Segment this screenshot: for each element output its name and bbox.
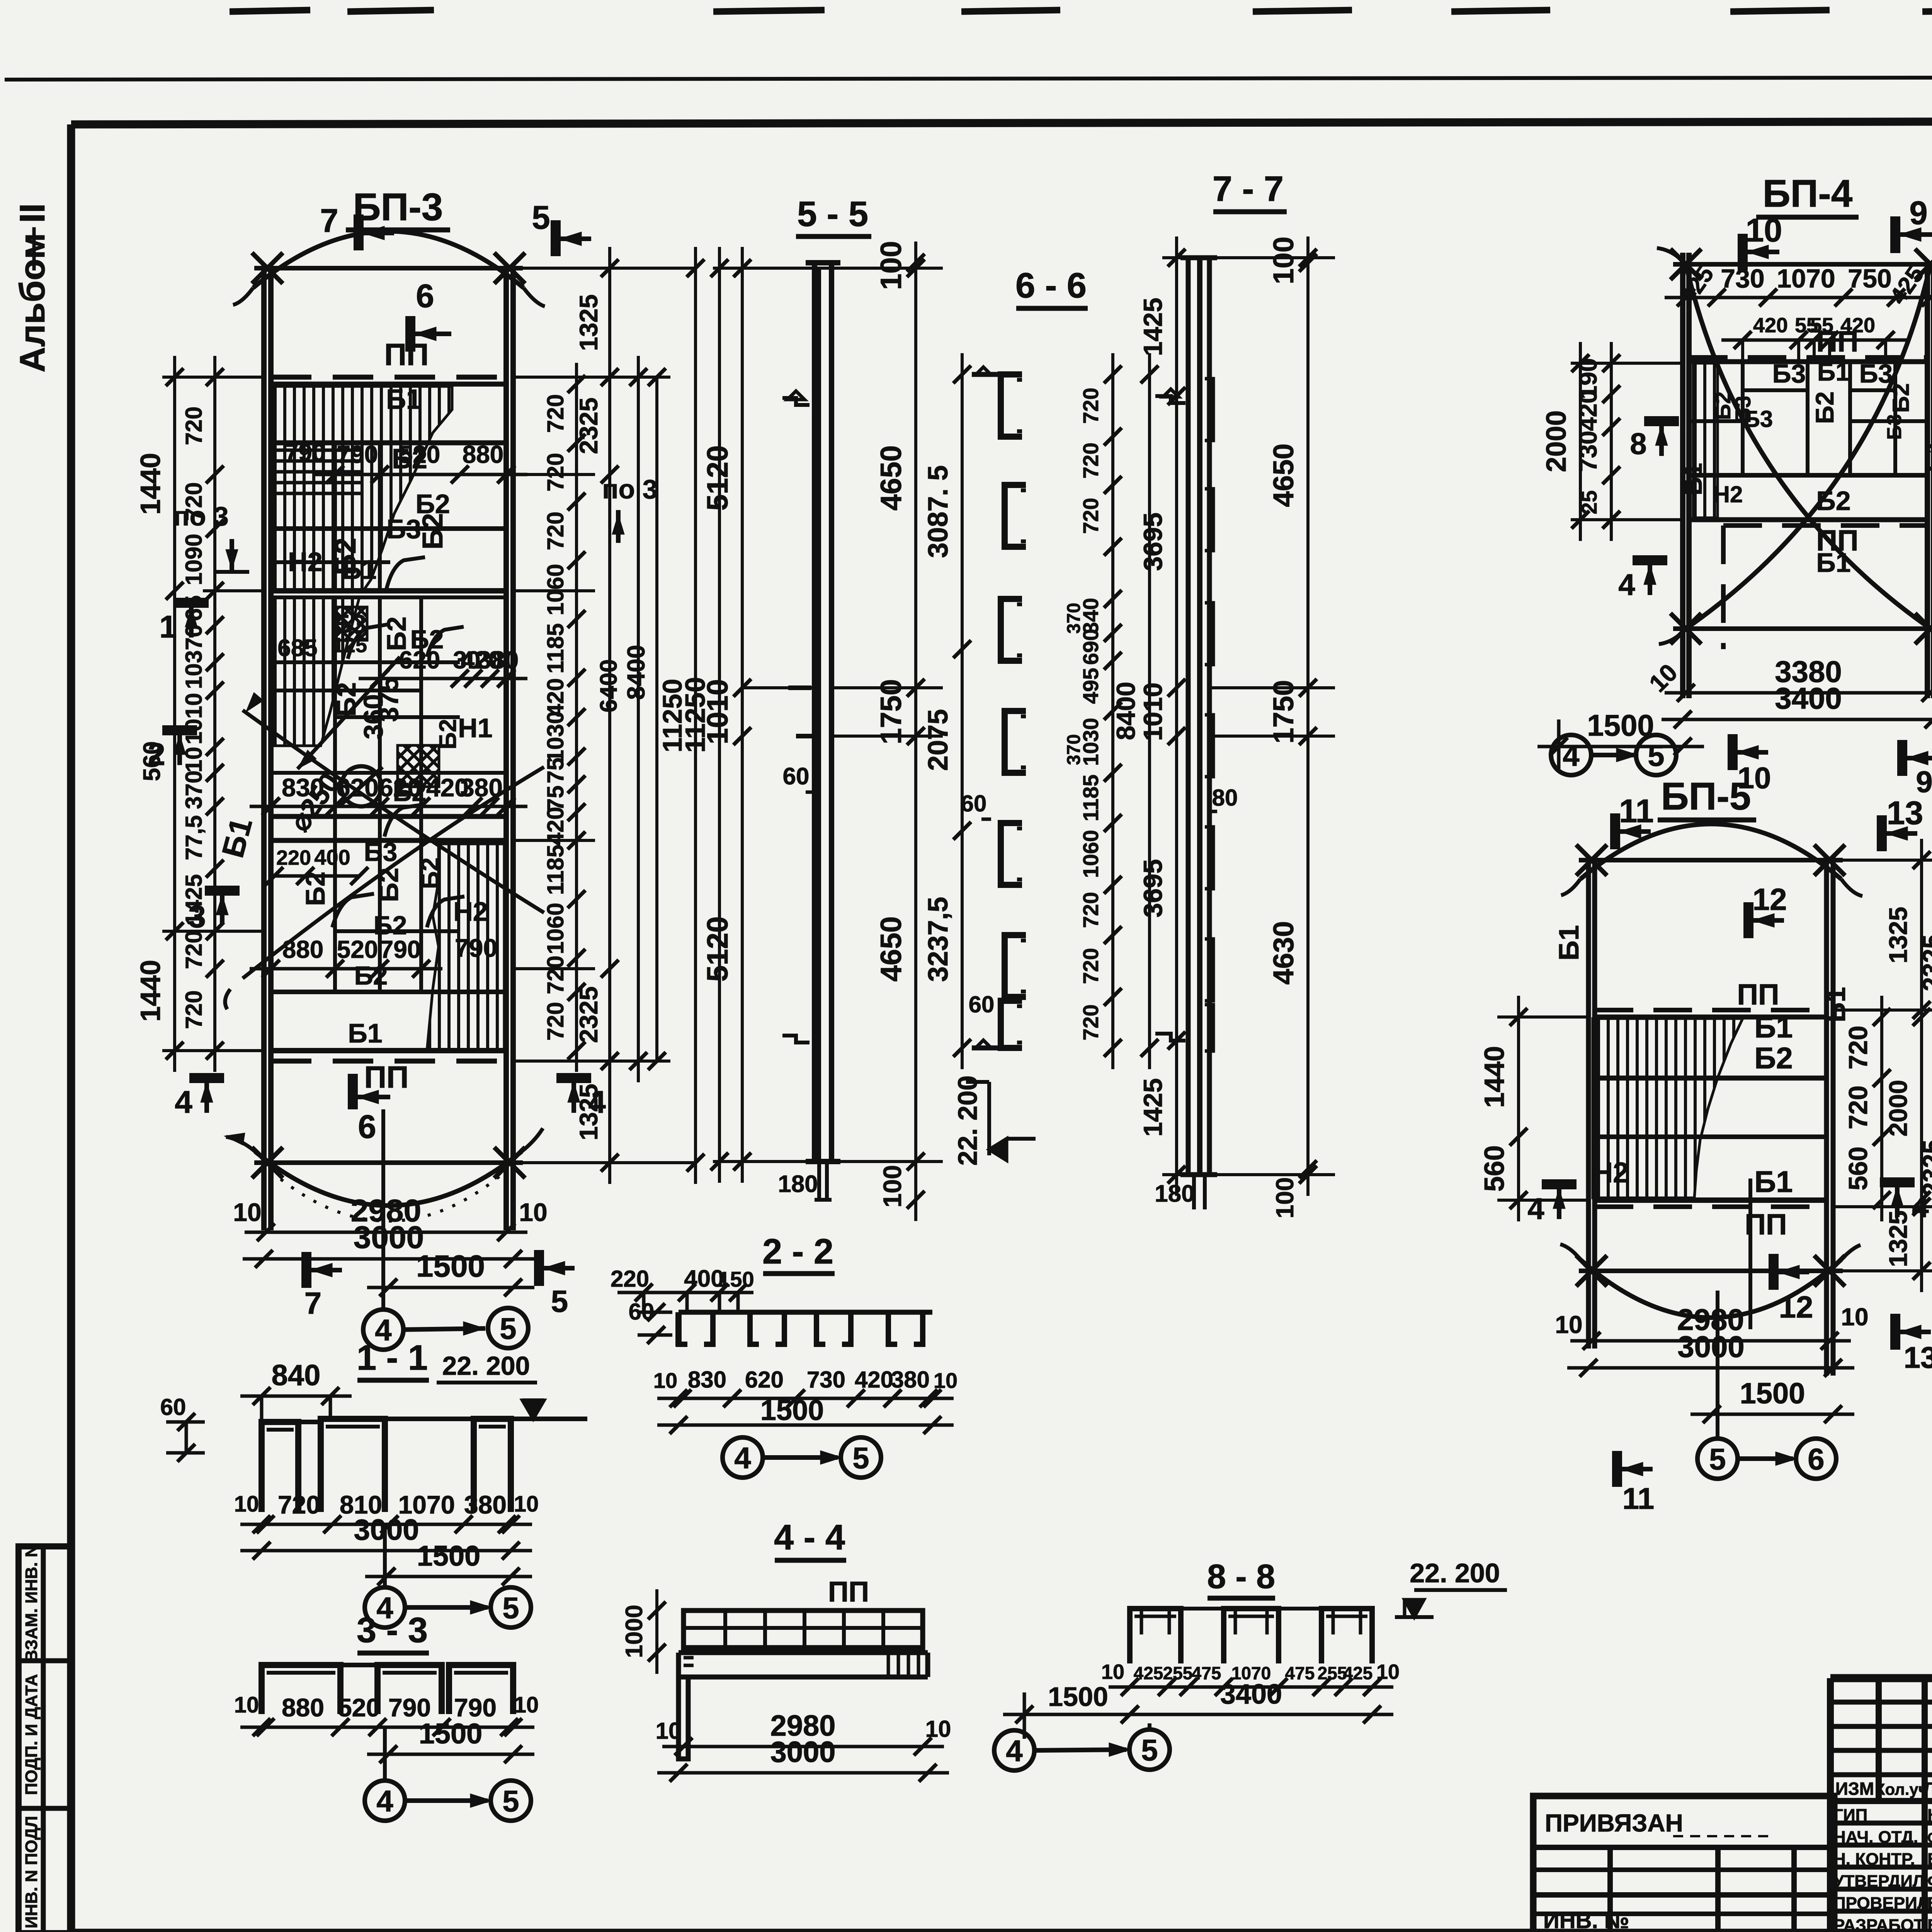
svg-text:125: 125 — [332, 634, 367, 657]
svg-text:3000: 3000 — [354, 1220, 424, 1255]
hatch region H2 bottom-right — [427, 844, 504, 1051]
svg-text:РАЗРАБОТ: РАЗРАБОТ — [1833, 1916, 1924, 1932]
7-7 internal channel marks — [1205, 379, 1213, 440]
section mark 4 left — [1542, 1179, 1577, 1189]
svg-text:1185: 1185 — [543, 623, 568, 673]
svg-text:НАЧ. ОТД.: НАЧ. ОТД. — [1833, 1828, 1918, 1847]
svg-text:БП-4: БП-4 — [1763, 172, 1853, 215]
svg-text:11250: 11250 — [680, 677, 711, 753]
axis circles 4 5 — [1551, 735, 1591, 775]
svg-text:1185: 1185 — [1078, 774, 1103, 821]
svg-text:1440: 1440 — [135, 453, 166, 515]
5-5 column body — [812, 263, 817, 1162]
svg-text:5: 5 — [551, 1284, 568, 1318]
svg-text:Б3: Б3 — [1772, 359, 1806, 388]
left margin stamp boxes — [19, 1546, 71, 1932]
svg-text:7 - 7: 7 - 7 — [1213, 169, 1284, 209]
БП-5 top arc — [1580, 824, 1841, 879]
svg-text:Б2: Б2 — [374, 867, 404, 902]
svg-text:1 - 1: 1 - 1 — [357, 1338, 428, 1378]
svg-text:720: 720 — [1078, 1004, 1103, 1040]
8-8 dim 1500 — [1003, 1713, 1151, 1716]
svg-text:100: 100 — [1267, 236, 1299, 284]
svg-text:370: 370 — [181, 770, 207, 809]
svg-text:2000: 2000 — [1884, 1080, 1912, 1137]
svg-text:4: 4 — [1527, 1192, 1544, 1226]
svg-text:13: 13 — [1904, 1340, 1932, 1374]
svg-text:БАБУРИН: БАБУРИН — [1927, 1850, 1932, 1869]
svg-text:1325: 1325 — [574, 1084, 603, 1141]
svg-text:Н2: Н2 — [1713, 481, 1743, 507]
svg-text:1060: 1060 — [543, 564, 568, 615]
svg-text:4 - 4: 4 - 4 — [774, 1518, 845, 1557]
svg-text:Б2: Б2 — [1888, 383, 1914, 413]
svg-text:495: 495 — [1078, 668, 1103, 704]
svg-text:520: 520 — [338, 1693, 380, 1722]
svg-text:6: 6 — [416, 278, 434, 315]
svg-text:Б2: Б2 — [1810, 391, 1839, 424]
svg-text:830: 830 — [688, 1367, 726, 1393]
svg-text:420: 420 — [855, 1367, 893, 1393]
section mark 7 top — [354, 214, 364, 250]
svg-text:720: 720 — [1844, 1085, 1873, 1129]
svg-text:60: 60 — [969, 992, 995, 1017]
svg-text:3695: 3695 — [1138, 859, 1168, 917]
privyazan box — [1533, 1796, 1834, 1932]
svg-text:720: 720 — [1078, 948, 1103, 984]
svg-text:720: 720 — [1078, 388, 1103, 423]
svg-text:60: 60 — [961, 791, 987, 816]
svg-text:1325: 1325 — [574, 294, 603, 351]
svg-text:10: 10 — [656, 1718, 682, 1744]
svg-text:ФЕДОТОВ: ФЕДОТОВ — [1927, 1872, 1932, 1891]
БП-5 left dim chain — [1517, 996, 1520, 1221]
svg-text:10: 10 — [653, 1368, 677, 1393]
БП-3 middle crossing arcs — [243, 710, 544, 913]
svg-text:80: 80 — [1212, 785, 1238, 811]
section mark 4 left — [1633, 555, 1667, 565]
svg-text:790: 790 — [285, 439, 326, 466]
БП-5 left flange — [1586, 860, 1591, 1349]
svg-text:560: 560 — [1479, 1145, 1510, 1192]
hatch horizontal lines in top block — [275, 449, 363, 452]
ПП dashed top — [1595, 1008, 1827, 1012]
svg-text:400: 400 — [314, 845, 350, 869]
svg-text:ВЗАМ. ИНВ. N: ВЗАМ. ИНВ. N — [22, 1545, 41, 1662]
3-3 dim 1500 — [367, 1753, 534, 1756]
БП-5 right dim chain mid — [1920, 839, 1923, 1292]
svg-text:1010: 1010 — [1138, 682, 1168, 741]
svg-text:560: 560 — [1844, 1146, 1873, 1190]
section mark 4 right — [1880, 1177, 1915, 1187]
svg-text:1425: 1425 — [181, 874, 207, 925]
svg-text:Б2: Б2 — [417, 513, 449, 549]
axis circles 5 6 — [1697, 1439, 1738, 1479]
БП-3 bottom arc — [255, 1151, 522, 1206]
svg-text:4: 4 — [376, 1784, 393, 1818]
БП-4 left flange — [1680, 253, 1685, 698]
svg-text:1500: 1500 — [419, 1718, 483, 1750]
svg-text:790: 790 — [455, 934, 497, 962]
svg-text:2000: 2000 — [1541, 410, 1572, 472]
svg-text:730: 730 — [1574, 431, 1602, 472]
svg-text:620: 620 — [379, 773, 422, 802]
dim row 880 520 790 bottom — [250, 967, 442, 971]
sheet frame bottom border — [71, 1929, 1932, 1932]
svg-text:Н2: Н2 — [288, 547, 322, 577]
svg-text:3695: 3695 — [1138, 512, 1168, 571]
svg-text:2325: 2325 — [1917, 1140, 1932, 1197]
svg-text:ПРОВЕРИЛ: ПРОВЕРИЛ — [1833, 1894, 1929, 1913]
svg-text:КУЗНЕЦОВ: КУЗНЕЦОВ — [1927, 1806, 1932, 1825]
7-7 left dim chain — [1175, 236, 1178, 1196]
svg-text:Б1: Б1 — [1817, 357, 1850, 386]
svg-text:5: 5 — [502, 1591, 519, 1625]
svg-text:100: 100 — [1271, 1177, 1299, 1219]
svg-text:2325: 2325 — [574, 986, 603, 1043]
svg-text:4650: 4650 — [1267, 444, 1299, 507]
svg-text:75: 75 — [543, 758, 568, 784]
svg-text:55: 55 — [1810, 314, 1833, 337]
svg-text:Б3: Б3 — [386, 514, 421, 544]
section mark 3 left — [205, 886, 240, 896]
5-5 outer dim 11250 — [718, 247, 721, 1183]
section mark 5 bottom — [534, 1250, 544, 1286]
svg-text:370: 370 — [181, 624, 207, 663]
svg-text:180: 180 — [778, 1171, 818, 1197]
7-7 top weld mark — [1155, 396, 1185, 403]
БП-3 connector lines to chains — [513, 267, 696, 270]
svg-text:8400: 8400 — [1111, 682, 1141, 740]
svg-text:100: 100 — [878, 1165, 906, 1207]
svg-text:620: 620 — [745, 1367, 784, 1393]
4-4 beam band — [679, 1650, 928, 1655]
ПП dashed top — [1689, 355, 1927, 360]
svg-text:Н1: Н1 — [458, 713, 492, 743]
svg-text:420: 420 — [543, 678, 568, 717]
svg-text:880: 880 — [282, 1693, 324, 1722]
section mark 10 top — [1738, 234, 1748, 270]
svg-text:БАБУРИН: БАБУРИН — [1927, 1894, 1932, 1913]
svg-text:3400: 3400 — [1775, 681, 1842, 715]
bent bar glyphs — [386, 557, 425, 589]
БП-4 top chord — [1673, 262, 1932, 267]
БП-5 horizontals — [1595, 1015, 1827, 1020]
1-1 dim 840 — [240, 1395, 352, 1398]
svg-text:77,5: 77,5 — [181, 815, 207, 861]
revision table horizontals — [1830, 1700, 1932, 1705]
svg-text:3000: 3000 — [1677, 1330, 1745, 1364]
7-7 column body — [1186, 258, 1191, 1175]
svg-text:475: 475 — [1285, 1663, 1315, 1683]
svg-text:9: 9 — [1916, 765, 1932, 799]
8-8 channels — [1130, 1609, 1181, 1663]
top trim line — [5, 77, 1932, 80]
svg-text:Б2: Б2 — [1754, 1041, 1793, 1075]
svg-text:Лист: Лист — [1923, 1779, 1932, 1799]
БП-3 right flange — [503, 268, 509, 1230]
svg-text:840: 840 — [272, 1359, 321, 1392]
svg-text:10: 10 — [234, 1492, 259, 1517]
leader line to hatch — [298, 657, 400, 769]
section mark 1 left — [174, 598, 209, 608]
svg-text:1440: 1440 — [1479, 1046, 1510, 1108]
hatch region top-left lower part — [274, 597, 359, 746]
svg-text:65: 65 — [181, 595, 207, 621]
svg-text:2 - 2: 2 - 2 — [762, 1232, 833, 1271]
ПП dashed bottom — [1595, 1204, 1827, 1209]
dim row 830-380 lower — [250, 805, 527, 808]
section mark 8 left — [1644, 416, 1679, 426]
svg-text:6400: 6400 — [595, 659, 622, 713]
svg-text:6: 6 — [358, 1109, 376, 1145]
svg-text:370: 370 — [1064, 603, 1084, 634]
БП-4 internal boxes — [1741, 362, 1745, 475]
svg-text:10: 10 — [1746, 212, 1782, 249]
film edge dashes top — [230, 10, 310, 12]
svg-text:100: 100 — [875, 241, 908, 290]
svg-text:1325: 1325 — [1884, 1211, 1912, 1267]
title block outline — [1830, 1674, 1932, 1682]
1-1 axis circles — [365, 1587, 405, 1628]
svg-text:Б3: Б3 — [1743, 406, 1773, 432]
svg-text:БИТКОВА: БИТКОВА — [1927, 1916, 1932, 1932]
section mark 4 left bottom — [189, 1073, 224, 1083]
svg-text:2325: 2325 — [1917, 935, 1932, 992]
svg-text:370: 370 — [1064, 734, 1084, 765]
svg-text:ПП: ПП — [1737, 978, 1779, 1011]
svg-text:СЕВОСТЬЯНОВ: СЕВОСТЬЯНОВ — [1927, 1830, 1932, 1846]
svg-text:10: 10 — [514, 1692, 539, 1718]
svg-text:560: 560 — [139, 741, 165, 781]
svg-text:9: 9 — [1909, 195, 1927, 231]
svg-text:Б1: Б1 — [1679, 463, 1707, 495]
БП-3 horizontal members — [271, 382, 506, 387]
ПП dashed line bottom — [271, 1059, 506, 1064]
БП-5 connector lines — [1833, 859, 1932, 862]
3-3 axis circles — [365, 1781, 405, 1821]
5-5 weld marks bottom — [782, 1036, 810, 1043]
svg-text:10: 10 — [1841, 1303, 1868, 1331]
svg-text:8: 8 — [1630, 427, 1646, 461]
8-8 axis circles — [994, 1730, 1034, 1770]
svg-text:720: 720 — [278, 1490, 320, 1519]
svg-text:3000: 3000 — [770, 1736, 835, 1769]
svg-text:Б3: Б3 — [1883, 414, 1906, 440]
svg-text:5: 5 — [1648, 738, 1664, 772]
svg-text:720: 720 — [1078, 892, 1103, 928]
cross hatch spot 2 H1 — [398, 745, 439, 787]
svg-text:10: 10 — [1376, 1660, 1400, 1684]
svg-text:520: 520 — [399, 440, 440, 468]
svg-text:22. 200: 22. 200 — [442, 1351, 530, 1381]
svg-text:5: 5 — [532, 199, 550, 236]
svg-text:Б1: Б1 — [386, 384, 422, 415]
svg-text:7: 7 — [320, 202, 338, 239]
revision table verticals — [1827, 1678, 1834, 1932]
svg-text:750: 750 — [1848, 264, 1891, 293]
svg-text:3 - 3: 3 - 3 — [357, 1611, 428, 1650]
1-1 dim 1500 — [365, 1575, 532, 1578]
svg-text:1000: 1000 — [621, 1605, 648, 1658]
svg-text:1070: 1070 — [1777, 264, 1835, 293]
svg-text:790: 790 — [380, 935, 421, 963]
svg-text:1500: 1500 — [417, 1540, 481, 1572]
svg-text:720: 720 — [543, 453, 568, 492]
svg-text:3237,5: 3237,5 — [923, 897, 954, 982]
svg-text:220: 220 — [611, 1266, 649, 1292]
svg-text:4: 4 — [1563, 738, 1579, 772]
svg-text:1090: 1090 — [181, 534, 207, 585]
svg-text:10: 10 — [233, 1198, 261, 1226]
section mark 6 lower — [348, 1074, 358, 1109]
svg-text:8 - 8: 8 - 8 — [1207, 1557, 1275, 1595]
svg-text:3400: 3400 — [1220, 1679, 1282, 1710]
svg-text:2325: 2325 — [574, 398, 603, 454]
svg-text:475: 475 — [1192, 1663, 1221, 1683]
svg-text:1750: 1750 — [1267, 680, 1299, 744]
sheet frame top border — [71, 121, 1932, 124]
svg-text:4: 4 — [734, 1441, 751, 1475]
svg-text:685: 685 — [277, 635, 317, 662]
svg-text:10: 10 — [234, 1692, 259, 1718]
2-2 axis circles — [723, 1437, 763, 1478]
svg-text:1185: 1185 — [543, 845, 568, 895]
section mark 12 bottom — [1769, 1254, 1779, 1290]
svg-text:10: 10 — [1101, 1660, 1124, 1684]
svg-text:Б1: Б1 — [1754, 1010, 1793, 1044]
svg-text:2075: 2075 — [923, 709, 954, 771]
БП-3 left dim chain outer — [173, 356, 176, 1072]
3-3 channels — [262, 1665, 340, 1714]
svg-text:880: 880 — [463, 440, 504, 468]
svg-text:5: 5 — [1141, 1733, 1158, 1767]
section mark 9 top — [1890, 216, 1900, 253]
section mark 13 bottom — [1890, 1314, 1900, 1350]
svg-text:1500: 1500 — [760, 1394, 824, 1426]
svg-text:5 - 5: 5 - 5 — [797, 194, 868, 234]
4-4 1000 dim — [655, 1589, 658, 1674]
svg-text:ПП: ПП — [828, 1576, 869, 1608]
svg-text:Б1: Б1 — [1820, 987, 1851, 1022]
svg-text:720: 720 — [1078, 442, 1103, 478]
5-5 weld marks mid — [788, 685, 811, 690]
БП-5 bottom chord — [1579, 1269, 1843, 1273]
svg-text:11: 11 — [1619, 793, 1654, 830]
svg-text:720: 720 — [181, 930, 207, 969]
svg-text:Б1: Б1 — [215, 814, 259, 861]
svg-text:7: 7 — [304, 1286, 322, 1320]
svg-text:425: 425 — [1343, 1663, 1373, 1683]
2-2 section body — [679, 1310, 932, 1315]
section mark 4 right bottom — [556, 1073, 591, 1083]
7-7 right dim chain — [1306, 236, 1310, 1196]
section mark 6 upper — [405, 316, 415, 352]
6-6 elevation 22.200 — [987, 1082, 991, 1155]
svg-text:22. 200: 22. 200 — [952, 1075, 983, 1166]
БП-3 bottom chord — [254, 1160, 523, 1165]
svg-text:Б1: Б1 — [1816, 548, 1850, 578]
БП-5 bottom arc — [1580, 1260, 1841, 1318]
svg-text:10: 10 — [934, 1368, 957, 1393]
svg-text:3087. 5: 3087. 5 — [923, 465, 954, 558]
svg-text:420: 420 — [543, 807, 568, 845]
5-5 connector lines — [713, 267, 943, 270]
svg-text:8400: 8400 — [622, 645, 650, 700]
svg-text:380: 380 — [464, 1490, 507, 1519]
svg-text:880: 880 — [282, 935, 324, 963]
section mark 5 top — [551, 220, 561, 256]
svg-text:Б2: Б2 — [1816, 486, 1850, 516]
svg-text:255: 255 — [1163, 1663, 1193, 1683]
svg-text:5: 5 — [502, 1784, 519, 1818]
svg-text:1425: 1425 — [1138, 1078, 1168, 1136]
svg-text:375: 375 — [374, 677, 404, 722]
section mark 10 bottom — [1728, 734, 1738, 770]
БП-4 hatch left — [1693, 363, 1718, 518]
8-8 dim 3400 — [1109, 1713, 1393, 1716]
svg-text:420: 420 — [1753, 314, 1788, 337]
6-6 top flange mark — [972, 372, 1005, 377]
svg-text:720: 720 — [543, 956, 568, 994]
svg-text:ПП: ПП — [364, 1060, 409, 1094]
svg-text:830: 830 — [282, 773, 324, 802]
БП-4 horizontals — [1689, 359, 1927, 364]
БП-3 internal verticals — [333, 443, 337, 591]
section mark 2 left — [162, 725, 197, 735]
svg-text:Н2: Н2 — [1592, 1156, 1629, 1189]
circle diameter mark — [341, 766, 381, 806]
6-6 channels stack — [1001, 374, 1022, 437]
cross hatch spot 1 — [337, 607, 367, 640]
svg-text:6: 6 — [1808, 1442, 1824, 1476]
svg-text:720: 720 — [543, 512, 568, 550]
svg-text:Н2: Н2 — [453, 896, 488, 927]
svg-text:БП-5: БП-5 — [1661, 775, 1751, 818]
svg-text:720: 720 — [543, 394, 568, 433]
svg-text:УТВЕРДИЛ: УТВЕРДИЛ — [1833, 1872, 1925, 1891]
svg-text:380: 380 — [891, 1367, 930, 1393]
svg-text:4: 4 — [1006, 1734, 1022, 1768]
svg-text:ИНВ. N ПОДЛ: ИНВ. N ПОДЛ — [22, 1816, 41, 1928]
svg-text:720: 720 — [1078, 498, 1103, 534]
svg-text:5: 5 — [1709, 1442, 1726, 1476]
svg-text:22. 200: 22. 200 — [1410, 1558, 1500, 1588]
БП-3 left dim chain inner — [213, 356, 216, 1072]
svg-text:4: 4 — [1618, 568, 1635, 602]
БП-4 right flange — [1925, 264, 1930, 698]
4-4 left column — [679, 1653, 688, 1759]
hatch region H2 top-left — [274, 386, 452, 591]
7-7 connector lines — [1162, 256, 1335, 259]
svg-text:ГИП: ГИП — [1833, 1806, 1867, 1825]
svg-text:720: 720 — [181, 406, 207, 445]
svg-text:10: 10 — [925, 1716, 951, 1742]
svg-text:5120: 5120 — [701, 916, 734, 981]
section mark 9 bottom — [1897, 740, 1907, 776]
svg-text:790: 790 — [337, 440, 378, 468]
svg-text:4: 4 — [175, 1085, 192, 1120]
БП-3 left flange — [261, 268, 267, 1230]
svg-text:520: 520 — [337, 935, 378, 963]
svg-text:Б1: Б1 — [1754, 1165, 1793, 1199]
section mark 7 bottom — [301, 1252, 311, 1288]
svg-text:5: 5 — [500, 1311, 516, 1345]
svg-text:5120: 5120 — [701, 445, 734, 510]
svg-text:12: 12 — [1779, 1290, 1813, 1324]
6-6 bottom flange mark — [972, 1046, 1010, 1051]
svg-text:420: 420 — [1574, 390, 1602, 431]
